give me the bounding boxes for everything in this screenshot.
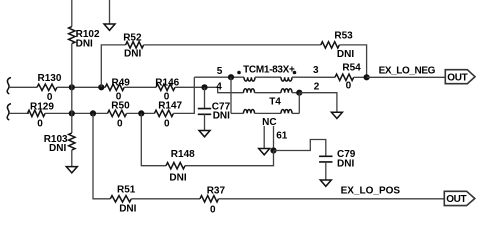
resistor R54 [335,74,354,80]
wire R52 to R53 [144,44,321,46]
svg-text:R129: R129 [30,101,54,112]
wire pin1 node to C79 [274,140,326,157]
wire row2 mid segment [255,92,282,94]
svg-text:DNI: DNI [76,39,93,50]
wire line2 seg2 [45,112,108,114]
wire line1 seg4 to pin4 jog [175,87,244,92]
node junction line2/R148 drop [138,110,144,116]
wire R103 bottom lead [71,150,73,167]
resistor R102 [69,27,75,44]
resistor R146 [156,84,175,90]
svg-text:R52: R52 [123,32,142,43]
wire line1 seg2 [57,86,105,88]
svg-text:EX_LO_POS: EX_LO_POS [341,186,401,197]
wire R148 left drop from line2 [141,113,166,165]
wire row3 mid segment [255,112,282,114]
node junction pin2/row3 riser [296,90,302,96]
node junction line1/R102 column [69,84,75,90]
resistor R53 [321,42,340,48]
svg-text:0: 0 [346,81,352,92]
svg-text:61: 61 [276,130,288,141]
polarity dot left (T4) [237,71,241,75]
svg-text:T4: T4 [269,96,281,107]
power arrow C79 [320,180,331,186]
resistor R147 [154,110,173,116]
wire R103 top lead [71,113,73,133]
resistor R103 [69,133,75,150]
svg-text:EX_LO_NEG: EX_LO_NEG [379,66,436,77]
wire row1 mid segment [255,76,281,78]
svg-text:R54: R54 [342,63,361,74]
wire pin3 net [292,76,335,78]
node junction line2/bottom-row drop [90,110,96,116]
transformer T4 winding row1 right [281,77,292,81]
off-page connector OUT (EX_LO_POS) [444,191,475,205]
svg-text:R51: R51 [117,185,136,196]
wire line2 to crossover riser [173,77,194,113]
wire line1 seg3 [124,86,156,88]
svg-text:R53: R53 [334,31,353,42]
svg-text:OUT: OUT [446,194,466,205]
svg-text:TCM1-83X+: TCM1-83X+ [243,64,295,75]
svg-text:0: 0 [210,205,216,216]
resistor R130 [37,84,57,90]
node junction line1/R52 leg [98,84,104,90]
wire R148 right to pin1 node [185,151,274,166]
power arrow pin2 net [331,112,342,118]
power arrow pin6 [259,149,270,155]
svg-text:5: 5 [217,66,223,77]
wire pin1 stub [273,126,275,151]
capacitor C77 [198,109,211,115]
svg-text:OUT: OUT [447,72,467,83]
wire bottom row seg2 [131,198,200,200]
off-page connector OUT (EX_LO_NEG) [445,70,475,84]
wire line1 left segment [9,86,37,88]
wire row3 left segment [231,112,244,114]
svg-text:DNI: DNI [119,204,136,215]
wire R52 left leg [101,45,125,87]
transformer T4 winding row2 left [244,89,255,93]
svg-text:DNI: DNI [213,111,230,122]
wire pin6 stub [263,126,265,149]
transformer T4 winding row1 left [244,77,255,81]
power arrow top [104,24,115,30]
wire top power stub [109,0,111,24]
net stub squiggle (line 2 continuation mark) [7,104,11,120]
node junction EX_LO_NEG [364,74,370,80]
capacitor C79 [319,156,332,162]
node junction pin5/row3 riser [228,74,234,80]
wire riser pin2-dot to row3 [298,93,300,114]
svg-text:DNI: DNI [124,48,141,59]
svg-text:R37: R37 [207,185,226,196]
resistor R51 [110,196,131,202]
wire C77 bottom lead [204,114,206,130]
wire row3 right segment [292,112,299,114]
net stub squiggle (line 1 continuation mark) [7,78,11,94]
wire line2 seg3 [127,112,155,114]
wire row2 right to pin2 node [292,92,299,94]
svg-text:0: 0 [117,119,123,130]
svg-text:3: 3 [313,65,319,76]
resistor R37 [200,196,219,202]
svg-text:R147: R147 [158,100,182,111]
svg-text:2: 2 [314,81,320,92]
wire R102 bottom lead to line1 [71,44,73,88]
wire R102 top lead from sheet edge [71,0,73,27]
wire pin2 to power arrow [299,93,337,113]
node junction line1/C77 [201,84,207,90]
transformer T4 winding row3 right [281,109,292,113]
wire R54 to node [354,76,367,78]
svg-text:DNI: DNI [337,159,354,170]
resistor R129 [28,110,46,116]
svg-text:R130: R130 [38,73,62,84]
transformer T4 winding row2 right [281,89,292,93]
svg-text:0: 0 [37,119,43,130]
wire pin5 net [194,76,244,78]
resistor R148 [166,163,185,169]
svg-text:R50: R50 [111,100,130,111]
svg-text:4: 4 [216,81,222,92]
wire C77 top lead [204,87,206,108]
transformer T4 winding row3 left [244,109,255,113]
wire C79 bottom lead [325,162,327,180]
wire line2 drop to bottom row [93,113,110,198]
wire riser pin5-dot to row3 [230,77,232,113]
wire line2 left segment [9,112,29,114]
resistor R49 [105,84,124,90]
svg-text:DNI: DNI [49,143,66,154]
power arrow C77 [199,131,210,137]
svg-text:DNI: DNI [337,49,354,60]
wire line1 to line2 via R102 column [71,87,73,113]
resistor R50 [108,110,127,116]
node junction line2/R102-R103 column [69,110,75,116]
svg-text:0: 0 [164,119,170,130]
wire EX_LO_POS to OUT [219,198,445,200]
resistor R52 [126,42,144,48]
svg-text:R148: R148 [171,149,195,160]
polarity dot right (T4) [293,71,297,75]
node junction pin1/C79/R148 [270,147,276,153]
power arrow below R103 [66,167,77,173]
wire EX_LO_NEG to OUT [367,76,446,78]
svg-text:DNI: DNI [169,172,186,183]
wire R53 right to EX_LO_NEG node [339,45,366,77]
